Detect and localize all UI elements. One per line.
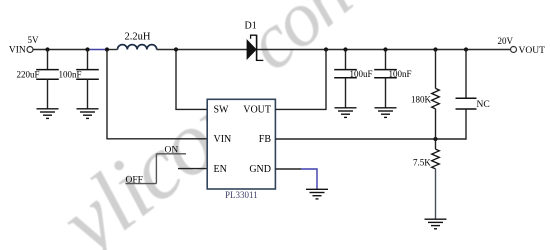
svg-text:VIN: VIN	[9, 46, 26, 56]
svg-text:5V: 5V	[28, 35, 40, 45]
svg-text:20V: 20V	[498, 36, 514, 46]
svg-text:GND: GND	[249, 164, 271, 175]
svg-text:VOUT: VOUT	[519, 46, 546, 56]
svg-text:PL33011: PL33011	[225, 190, 258, 200]
ground (7.5K)	[425, 219, 447, 229]
terminal VOUT	[511, 47, 517, 53]
node: VOUT-pin riser junction	[324, 47, 328, 51]
wire: top rail from VIN terminal to 100nF node	[33, 49, 88, 51]
ground (output 100nF)	[375, 108, 397, 118]
wire: top rail VIN-drop node to inductor	[107, 49, 118, 51]
svg-text:2.2uH: 2.2uH	[125, 31, 151, 42]
capacitor 100nF (output)	[374, 50, 397, 108]
svg-text:VOUT: VOUT	[243, 105, 271, 116]
svg-text:180K: 180K	[411, 95, 432, 105]
terminal VIN	[27, 47, 33, 53]
IC U1 PL33011	[207, 99, 275, 189]
diode D1	[247, 35, 263, 61]
svg-text:D1: D1	[245, 21, 257, 32]
node: 220uF junction	[45, 47, 49, 51]
resistor 7.5K	[432, 139, 440, 219]
node: 100nF output junction	[383, 47, 387, 51]
ground (220uF)	[37, 109, 59, 119]
node: SW-pin drop junction	[174, 47, 178, 51]
node: 100uF output junction	[343, 47, 347, 51]
wire: GND pin	[275, 168, 301, 170]
svg-text:SW: SW	[214, 105, 230, 116]
wire: VOUT pin riser	[275, 50, 326, 110]
capacitor 100uF (output)	[334, 50, 357, 108]
svg-text:EN: EN	[214, 164, 227, 175]
svg-text:NC: NC	[477, 100, 490, 110]
wire: SW pin connection	[176, 50, 207, 110]
wire: top rail inductor to diode anode	[157, 49, 248, 51]
wire: top rail diode cathode to VOUT terminal	[257, 49, 511, 51]
node: 100nF junction	[85, 47, 89, 51]
wire: GND pin blue segment	[301, 169, 317, 189]
node: NC junction	[464, 47, 468, 51]
ground (output 100uF)	[335, 108, 357, 118]
node: FB divider junction	[433, 137, 437, 141]
svg-text:VIN: VIN	[214, 134, 232, 145]
node: 180K junction	[433, 47, 437, 51]
svg-text:100nF: 100nF	[58, 69, 81, 79]
ground (IC GND)	[306, 189, 328, 199]
switch ON/OFF for EN	[126, 154, 208, 184]
svg-text:100uF: 100uF	[350, 69, 373, 79]
wire: FB net	[275, 109, 466, 139]
node: VIN-pin drop junction	[105, 47, 109, 51]
capacitor NC	[456, 50, 477, 110]
resistor 180K	[432, 50, 440, 140]
wire: VIN pin connection	[107, 50, 207, 139]
capacitor 220uF	[36, 50, 59, 109]
svg-text:FB: FB	[259, 134, 272, 145]
svg-text:OFF: OFF	[126, 175, 143, 185]
svg-text:100nF: 100nF	[389, 69, 412, 79]
wire: top rail blue segment 100nF node to VIN-drop node	[88, 49, 107, 51]
inductor L 2.2uH	[118, 45, 157, 50]
svg-text:ON: ON	[165, 145, 179, 155]
capacitor 100nF (input)	[76, 50, 99, 109]
ground (input 100nF)	[77, 109, 99, 119]
svg-text:7.5K: 7.5K	[413, 158, 431, 168]
svg-text:220uF: 220uF	[16, 69, 39, 79]
